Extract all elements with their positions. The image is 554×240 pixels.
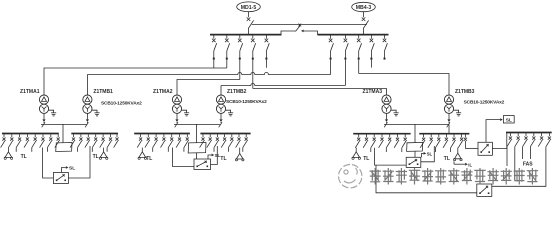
LV section 2: bus coupler box <box>188 143 206 154</box>
LV bus 2 right segment <box>200 133 250 135</box>
LV1 feeder 10 <box>78 134 83 147</box>
svg-text:Z1TMB2: Z1TMB2 <box>227 89 247 95</box>
HV feeder drop 8 with breaker and isolator <box>357 35 362 73</box>
SL transfer feeder wire LV3 <box>375 148 407 165</box>
bus tie arrow <box>301 30 304 33</box>
LV2 feeder 5 <box>168 134 173 147</box>
transformer Z1TMA3 <box>363 89 399 127</box>
disconnect blade incomer 1 <box>249 20 254 28</box>
feeder wire to transformer T3 <box>177 80 240 96</box>
10kV bus section A <box>210 34 282 36</box>
svg-text:SL: SL <box>506 118 512 124</box>
svg-text:TL: TL <box>21 154 27 160</box>
lighting delta load LV2 right <box>235 148 244 161</box>
watermark logo circle <box>339 165 362 188</box>
LV bus 2 left segment <box>134 133 190 135</box>
LV3 feeder 1 <box>355 135 360 148</box>
svg-text:SL: SL <box>69 165 75 171</box>
LV section 1: bus coupler box <box>56 143 72 152</box>
SL transfer switch box LV1 <box>53 173 68 184</box>
HV feeder drop 3 with breaker and isolator <box>238 35 243 79</box>
HV feeder drop 9 with breaker and isolator <box>370 35 375 67</box>
LV3 feeder stub <box>434 148 436 152</box>
LV bus 1 left segment <box>2 133 59 135</box>
LV1 feeder stub <box>91 148 93 152</box>
incoming source cable W1 label ellipse MD1-5 <box>237 2 261 12</box>
LV2 feeder 11 <box>221 134 226 147</box>
LV2 feeder 8 <box>200 134 205 147</box>
incoming source cable W2 label ellipse MB4-3 <box>352 2 376 11</box>
LV1 feeder 15 <box>114 134 119 147</box>
lighting delta load LV3 right <box>454 148 463 161</box>
svg-text:SCB10-1250KVAx2: SCB10-1250KVAx2 <box>226 99 267 105</box>
bottom loop wire from bus4 <box>492 147 546 187</box>
LV1 feeder 3 <box>16 134 21 147</box>
svg-text:MB4-3: MB4-3 <box>356 5 372 11</box>
LV3 feeder stub <box>450 148 452 152</box>
wire incomer 2 to bus B <box>363 28 365 35</box>
LV section 2: header wire between T3 and T4 <box>174 123 220 125</box>
LV bus 4 (emergency FAS bus) <box>506 132 552 134</box>
LV1 feeder 14 <box>107 134 112 147</box>
svg-text:Z1TMA2: Z1TMA2 <box>153 89 173 95</box>
LV4 feeder 1 <box>507 133 512 146</box>
lighting delta load LV1 right <box>99 148 108 160</box>
LV1 feeder stub <box>77 148 79 152</box>
LV section 1: center riser <box>62 124 64 142</box>
LV2 feeder 14 <box>243 134 248 147</box>
LV section 1: header wire between T1 and T2 <box>41 123 87 125</box>
SL return wire LV2 <box>211 146 218 165</box>
breaker x-mark on incomer 1 <box>247 17 251 21</box>
LV section 3: bus coupler box <box>407 142 423 151</box>
SL transfer feeder wire LV2 <box>173 148 195 167</box>
signal wire to SL box <box>486 118 503 142</box>
watermark text strokes <box>370 168 539 185</box>
breaker x-mark on incomer 2 <box>362 17 366 21</box>
lighting delta load LV2 left <box>138 148 147 160</box>
LV2 feeder 9 <box>207 134 212 147</box>
LV2 feeder 12 <box>228 134 233 147</box>
LV3 feeder stub <box>385 148 387 152</box>
HV feeder drop 5 with breaker and isolator <box>265 35 270 67</box>
lighting delta load LV1 left <box>4 148 13 160</box>
LV section 3: center riser <box>414 124 416 142</box>
LV1 feeder stub <box>106 148 108 152</box>
LV1 feeder stub <box>46 148 48 152</box>
SL return wire LV3 <box>421 146 435 162</box>
LV3 feeder 6 <box>394 135 399 148</box>
LV3 feeder 8 <box>420 135 425 148</box>
LV bus 3 left segment <box>353 133 410 135</box>
upper tie wire between incomers <box>252 23 367 25</box>
LV2 feeder stub <box>167 148 169 152</box>
LV1 feeder 6 <box>40 134 45 147</box>
HV feeder drop 4 with breaker and isolator <box>251 35 256 88</box>
SL transfer switch box LV2 <box>194 159 211 170</box>
LV4 feeder 3 <box>523 133 528 146</box>
LV2 feeder stub <box>152 148 154 152</box>
SL return wire LV1 <box>68 146 90 178</box>
wire incomer 1 to bus A <box>248 28 250 35</box>
LV3 feeder 2 <box>363 135 368 148</box>
LV1 feeder 13 <box>100 134 105 147</box>
LV2 feeder 13 <box>236 134 241 147</box>
feeder wire to transformer T1 <box>44 68 227 95</box>
svg-text:TL: TL <box>146 156 152 162</box>
SL transfer switch box LV3 <box>406 157 421 167</box>
svg-text:FAS: FAS <box>523 161 533 167</box>
LV section 3: T6 side riser to bus <box>448 124 450 133</box>
svg-text:Z1TMA3: Z1TMA3 <box>363 89 383 95</box>
arrow annotation near LV3 right delta <box>454 161 472 167</box>
LV4 feeder 2 <box>515 133 520 146</box>
svg-text:Z1TMB1: Z1TMB1 <box>93 89 113 95</box>
LV3 feeder 3 <box>371 135 376 148</box>
bus tie breaker blade <box>296 25 301 31</box>
HV feeder drop 6 with breaker and isolator <box>329 35 334 74</box>
LV section 2: center riser <box>195 124 197 142</box>
transformer Z1TMB2 <box>216 89 267 128</box>
LV1 feeder 4 <box>24 134 29 147</box>
LV2 feeder 2 <box>145 134 150 147</box>
LV bus 1 right segment <box>71 133 118 135</box>
LV1 feeder stub <box>31 148 33 152</box>
LV1 feeder 1 <box>1 134 6 147</box>
SL signal label box <box>503 116 514 124</box>
LV2 feeder stub <box>242 148 244 152</box>
coupler to switch riser LV3 <box>414 151 416 157</box>
svg-text:SL: SL <box>427 151 433 156</box>
LV3 feeder 4 <box>379 135 384 148</box>
LV bus 3 right segment <box>419 133 469 135</box>
LV4 feeder 5 <box>538 133 543 146</box>
LV2 feeder stub <box>213 148 215 152</box>
bottom transfer switch box <box>477 184 492 196</box>
HV feeder drop 2 with breaker and isolator <box>225 35 230 68</box>
transformer Z1TMB3 <box>444 89 504 128</box>
LV2 feeder stub <box>227 148 229 152</box>
LV2 feeder 4 <box>161 134 166 147</box>
transformer Z1TMA1 <box>20 89 56 127</box>
transfer switch box between bus3 and bus4 <box>478 142 492 155</box>
bus tie riser right <box>304 31 318 35</box>
LV2 feeder stub <box>183 148 185 152</box>
LV4 feeder stub b <box>514 147 516 180</box>
wire from MD1-5 down to breaker <box>248 12 250 18</box>
LV3 feeder 11 <box>443 135 448 148</box>
LV3 feeder 5 <box>386 135 391 148</box>
bus tie riser left <box>281 31 296 35</box>
svg-text:TL: TL <box>363 156 369 162</box>
LV3 right end tie drop <box>464 135 467 149</box>
LV2 feeder 3 <box>153 134 158 147</box>
LV2 feeder 10 <box>214 134 219 147</box>
coupler to switch riser LV2 <box>195 153 197 159</box>
SL transfer feeder wire LV1 <box>43 148 54 179</box>
LV2 feeder 1 <box>137 134 142 147</box>
LV1 feeder 8 <box>55 134 60 147</box>
feeder wire to transformer T2 <box>87 73 330 96</box>
LV1 feeder 7 <box>47 134 52 147</box>
LV1 feeder 9 <box>70 134 75 147</box>
feeder wire to transformer T6 <box>359 74 449 96</box>
SL arrow and label LV2 <box>208 153 221 159</box>
bottom loop wire from LV3 to bottom transfer box <box>376 165 477 193</box>
svg-text:SCB10-1250KVAx2: SCB10-1250KVAx2 <box>101 101 142 107</box>
wire from MB4-3 down to breaker <box>363 12 365 18</box>
LV3 feeder 10 <box>435 135 440 148</box>
svg-text:MD1-5: MD1-5 <box>241 5 257 11</box>
LV3 feeder 12 <box>451 135 456 148</box>
svg-text:Z1TMB3: Z1TMB3 <box>455 89 475 95</box>
LV2 feeder 6 <box>176 134 181 147</box>
LV4 feeder stub d <box>529 147 531 159</box>
HV feeder drop 7 with breaker and isolator <box>344 35 349 85</box>
LV4 feeder stub a <box>506 147 508 166</box>
LV2 feeder 7 <box>184 134 189 147</box>
lighting delta load LV3 left <box>352 148 361 160</box>
SL arrow and label LV1 <box>62 165 76 172</box>
HV feeder drop 1 with breaker and isolator <box>212 35 217 68</box>
svg-text:Z1TMA1: Z1TMA1 <box>20 89 40 95</box>
LV1 feeder 2 <box>8 134 13 147</box>
HV feeder drop 10 with breaker and isolator <box>383 35 388 59</box>
LV3 feeder 9 <box>428 135 433 148</box>
svg-text:SCB10-1250KVAx2: SCB10-1250KVAx2 <box>464 99 505 105</box>
LV3 feeder 13 <box>458 135 463 148</box>
LV1 feeder 5 <box>32 134 37 147</box>
LV3 feeder stub <box>370 148 372 152</box>
bus tie x-mark <box>298 24 301 27</box>
feeder wire to transformer T4 <box>221 84 345 96</box>
feeder wire to transformer T5 <box>253 89 387 96</box>
LV section 3: header wire between T5 and T6 <box>384 123 449 125</box>
svg-text:TL: TL <box>93 154 99 160</box>
LV4 feeder 4 <box>530 133 535 146</box>
transformer Z1TMA2 <box>153 89 189 127</box>
svg-text:TL: TL <box>444 156 450 162</box>
svg-text:TL: TL <box>220 156 226 162</box>
SL arrow and label LV3 <box>422 151 433 157</box>
tie wire LV3 to transfer box <box>465 148 478 150</box>
LV1 feeder 11 <box>85 134 90 147</box>
tie wire transfer box to bus4 <box>492 133 506 148</box>
LV4 feeder stub c <box>522 147 524 159</box>
svg-text:IL: IL <box>468 162 472 167</box>
LV4 feeder 6 <box>546 133 551 146</box>
transformer Z1TMB1 <box>83 89 142 128</box>
10kV bus section B <box>318 34 389 36</box>
LV3 feeder stub <box>401 148 403 152</box>
disconnect blade incomer 2 <box>364 20 369 28</box>
LV1 feeder 12 <box>92 134 97 147</box>
LV1 feeder stub <box>15 148 17 152</box>
LV3 feeder 7 <box>402 135 407 148</box>
